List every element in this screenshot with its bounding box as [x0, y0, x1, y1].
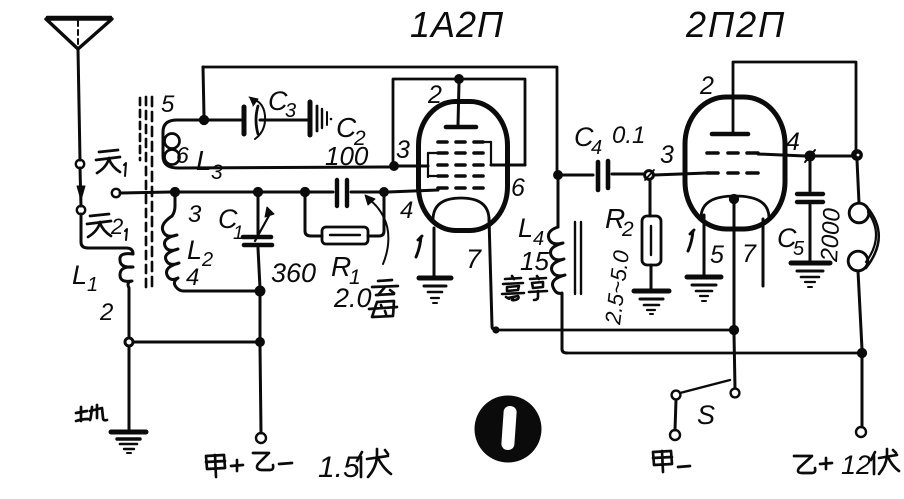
- filament rail (A-): [497, 329, 734, 332]
- tube U2 2П2П envelope: [685, 97, 785, 229]
- wire antenna down: [78, 49, 80, 160]
- svg-text:2: 2: [201, 249, 213, 271]
- node filament rail / switch: [730, 326, 739, 335]
- svg-text:4: 4: [591, 137, 602, 159]
- node C4/L4: [554, 171, 562, 179]
- wire L4 bottom to B+ rail: [562, 297, 567, 353]
- svg-text:2: 2: [110, 214, 123, 239]
- U1 pin6 wire and bracket: [483, 142, 525, 165]
- ground U1 cathode: [419, 278, 451, 303]
- U1 pin7 wire: [489, 218, 497, 330]
- node phones (open): [852, 150, 862, 160]
- ground R2: [634, 291, 669, 314]
- B+ rail: [567, 352, 862, 355]
- node C1 top: [254, 188, 263, 197]
- node junction main wire / L2 top: [171, 188, 180, 197]
- svg-text:4: 4: [400, 197, 413, 224]
- svg-text:5: 5: [710, 241, 724, 269]
- label pin1 U1: [416, 237, 421, 257]
- main grid wire left: [120, 192, 171, 193]
- U2 pin4 wire: [758, 154, 805, 156]
- wire C1 bottom: [258, 248, 260, 288]
- svg-text:3: 3: [211, 161, 223, 184]
- svg-text:3: 3: [660, 141, 674, 169]
- svg-text:L: L: [187, 235, 202, 265]
- svg-text:0.1: 0.1: [612, 122, 645, 149]
- wire C1 top lead: [257, 196, 260, 234]
- wire C1 to R1 node: [262, 191, 301, 194]
- node R1 left: [301, 188, 310, 197]
- node cathode apex: [730, 195, 739, 204]
- terminal 乙+: [856, 427, 866, 437]
- svg-text:7: 7: [742, 240, 757, 268]
- capacitor C2: [310, 102, 332, 135]
- U1 grid dashes: [438, 142, 483, 188]
- main grid wire to C1: [175, 191, 254, 194]
- regeneration arrow: [365, 195, 388, 264]
- svg-text:100: 100: [325, 141, 369, 171]
- label pin1 U2: [688, 231, 693, 251]
- terminal 天2: [77, 206, 85, 214]
- label 毫亨 (mH): [502, 276, 547, 300]
- svg-text:1А2П: 1А2П: [410, 4, 504, 45]
- wire battery node down to terminal: [260, 346, 261, 433]
- ground (main): [111, 432, 146, 453]
- node inner box top: [455, 75, 463, 83]
- label 甲+乙- 1.5伏: [206, 449, 391, 484]
- switch S: [670, 380, 739, 440]
- coil L3: [163, 120, 392, 168]
- junction L1/ground: [125, 338, 133, 346]
- node pin3 / L3 bottom: [390, 162, 398, 170]
- svg-text:3: 3: [396, 136, 410, 164]
- wire down to battery node: [259, 295, 262, 338]
- wire C3 to C2: [260, 119, 307, 122]
- grid capacitor (mica): [337, 180, 347, 206]
- wire L1 bottom down: [128, 288, 131, 338]
- svg-text:7: 7: [466, 244, 482, 274]
- svg-text:2: 2: [699, 72, 714, 100]
- U1 inner box pins 2-6: [393, 79, 525, 165]
- svg-text:4: 4: [186, 264, 199, 291]
- label 乙+ 12伏: [794, 449, 899, 480]
- label 甲- (switch): [653, 451, 690, 472]
- wire C4 to grid node: [612, 173, 644, 176]
- resistor R1 leads: [305, 196, 322, 236]
- svg-text:L: L: [518, 213, 533, 243]
- U2 pin7 stub: [762, 219, 765, 286]
- svg-text:15: 15: [520, 246, 549, 276]
- antenna: [46, 17, 112, 49]
- terminal 天1: [76, 160, 84, 168]
- coil L1: [120, 254, 133, 288]
- svg-text:S: S: [697, 400, 715, 430]
- resistor R2 body: [642, 216, 661, 265]
- U1 pin1 wire: [433, 228, 436, 277]
- transformer core dashed: [140, 97, 152, 291]
- U2 pin1 wire: [703, 215, 706, 276]
- svg-text:5: 5: [161, 91, 175, 118]
- ground U2: [687, 277, 721, 301]
- svg-text:1: 1: [87, 274, 98, 296]
- wire R1 node to grid cap: [309, 191, 333, 194]
- terminal 甲+乙-: [256, 433, 266, 443]
- node L3 top junction: [200, 116, 209, 125]
- capacitor C5 leads: [809, 161, 812, 191]
- capacitor C4: [598, 161, 608, 190]
- top rail wire: [203, 67, 557, 171]
- resistor R2 leads: [649, 180, 652, 216]
- svg-text:5: 5: [793, 238, 805, 260]
- resistor R1 body: [322, 227, 368, 244]
- node battery A+: [256, 338, 264, 346]
- wire grid cap node to tube pin4 row: [388, 190, 438, 192]
- wire junction to L2: [172, 196, 175, 216]
- svg-text:3: 3: [188, 201, 202, 228]
- label 地: [76, 405, 107, 421]
- svg-text:L: L: [72, 260, 87, 290]
- svg-text:2.0: 2.0: [333, 283, 372, 313]
- wire ground node to battery node: [133, 341, 256, 344]
- node grid cap right: [380, 188, 388, 196]
- capacitor C1 (variable 360): [243, 207, 274, 245]
- wire L2 bottom to C1 bottom: [184, 290, 260, 293]
- L4 core lines: [575, 222, 581, 294]
- figure number 1: [475, 396, 542, 463]
- ground C5: [791, 263, 830, 287]
- svg-text:2.5~5.0: 2.5~5.0: [600, 248, 634, 326]
- svg-text:6: 6: [511, 174, 525, 202]
- wire grid node to U2: [654, 173, 707, 175]
- wire node to C4: [562, 174, 593, 177]
- U2 anode top rail: [733, 62, 856, 152]
- label 天1: [96, 150, 126, 176]
- svg-text:12: 12: [841, 450, 871, 480]
- U2 cathode dome: [701, 196, 769, 218]
- wire L3 junction up to top rail: [203, 67, 204, 116]
- svg-text:2000: 2000: [816, 207, 846, 263]
- node C1 bottom / L2 pin4: [255, 286, 264, 295]
- svg-text:2: 2: [621, 218, 634, 241]
- tube U1 1А2П envelope: [419, 102, 508, 231]
- headphones: [848, 160, 879, 349]
- label 天2: [87, 214, 127, 240]
- wire to phones node: [815, 155, 851, 158]
- U1 anode stem pin2: [458, 83, 459, 125]
- terminal tap circle: [112, 189, 120, 197]
- svg-text:L: L: [196, 145, 212, 176]
- coil L2: [162, 216, 184, 291]
- U1 pin3 wire and bracket: [398, 153, 437, 177]
- U2 cathode wire down: [733, 203, 736, 326]
- svg-text:2П2П: 2П2П: [685, 4, 786, 45]
- node B+ rail / phones: [858, 349, 867, 358]
- svg-text:1.5: 1.5: [318, 451, 360, 484]
- choke L4 lead from node: [557, 179, 560, 227]
- capacitor C5: [797, 194, 823, 202]
- wire B+ terminal: [861, 357, 864, 426]
- wire with arrow to 天2: [77, 168, 85, 206]
- wire 天2 to L1 top: [81, 214, 133, 254]
- svg-text:360: 360: [271, 258, 316, 288]
- node U2 grid (open): [645, 170, 654, 180]
- svg-text:2: 2: [99, 299, 113, 326]
- label 云母 (mica): [369, 280, 398, 317]
- switch S wire from rail: [734, 334, 735, 388]
- U1 anode bar: [446, 125, 476, 130]
- U2 grid dashes: [707, 153, 758, 173]
- coil L4: [548, 227, 565, 297]
- U2 anode bar: [712, 132, 748, 137]
- capacitor C3 (variable): [244, 97, 265, 139]
- U1 cathode dome: [433, 198, 489, 220]
- svg-text:1: 1: [233, 223, 244, 244]
- node C5 tap (open): [805, 150, 815, 162]
- wire to ground: [128, 346, 131, 429]
- svg-text:4: 4: [786, 128, 800, 156]
- svg-text:2: 2: [427, 81, 442, 109]
- svg-text:6: 6: [176, 142, 189, 168]
